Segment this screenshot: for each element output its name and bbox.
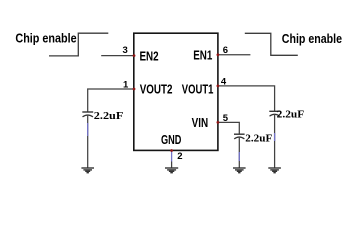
- svg-text:6: 6: [223, 45, 228, 56]
- wire right chip-enable falling step waveform: [245, 33, 298, 55]
- wire left chip-enable rising step waveform: [49, 33, 108, 56]
- svg-text:1: 1: [123, 80, 129, 91]
- op-amp U1 (regulator IC body): [134, 33, 218, 150]
- node junction pin6: [217, 53, 220, 56]
- svg-text:Chip enable: Chip enable: [15, 32, 76, 46]
- node junction pin2: [170, 149, 173, 152]
- wire C2 bottom lead: [238, 138, 240, 168]
- wire pin 6 EN1: [218, 54, 250, 56]
- wire pin 3 EN2: [101, 55, 134, 57]
- node junction pin3: [133, 54, 136, 57]
- ground (left, C1): [81, 168, 94, 173]
- svg-text:EN1: EN1: [193, 48, 212, 62]
- wire C3 bottom lead: [274, 115, 276, 168]
- capacitor C3 2.2uF (right): [269, 108, 304, 120]
- svg-text:VOUT1: VOUT1: [182, 82, 214, 96]
- capacitor C2 2.2uF (VIN): [234, 133, 273, 145]
- svg-text:2: 2: [177, 151, 182, 162]
- svg-text:EN2: EN2: [140, 50, 159, 64]
- svg-text:5: 5: [223, 113, 229, 124]
- wire pin 4 VOUT1 to capacitor C3: [218, 86, 275, 111]
- svg-text:VIN: VIN: [192, 116, 209, 130]
- node junction pin1: [133, 88, 136, 91]
- svg-text:2.2uF: 2.2uF: [245, 133, 272, 145]
- wire pin 1 VOUT2 to capacitor C1: [88, 89, 134, 112]
- capacitor C1 2.2uF (left): [82, 110, 123, 122]
- ground (C2, VIN): [233, 168, 246, 173]
- node junction pin4: [217, 85, 220, 88]
- ground (C3, right): [268, 168, 281, 173]
- ground (pin 2 GND): [165, 168, 178, 173]
- svg-text:GND: GND: [161, 133, 181, 147]
- svg-text:2.2uF: 2.2uF: [94, 110, 124, 122]
- svg-text:2.2uF: 2.2uF: [277, 108, 305, 120]
- node junction pin5: [217, 121, 220, 124]
- svg-text:VOUT2: VOUT2: [140, 82, 173, 96]
- wire C1 bottom lead: [87, 116, 89, 168]
- svg-text:4: 4: [221, 77, 227, 88]
- svg-text:Chip enable: Chip enable: [282, 32, 342, 46]
- wire pin 5 VIN to capacitor C2: [218, 122, 239, 134]
- wire pin 2 GND stub: [171, 150, 173, 161]
- svg-text:3: 3: [123, 45, 128, 56]
